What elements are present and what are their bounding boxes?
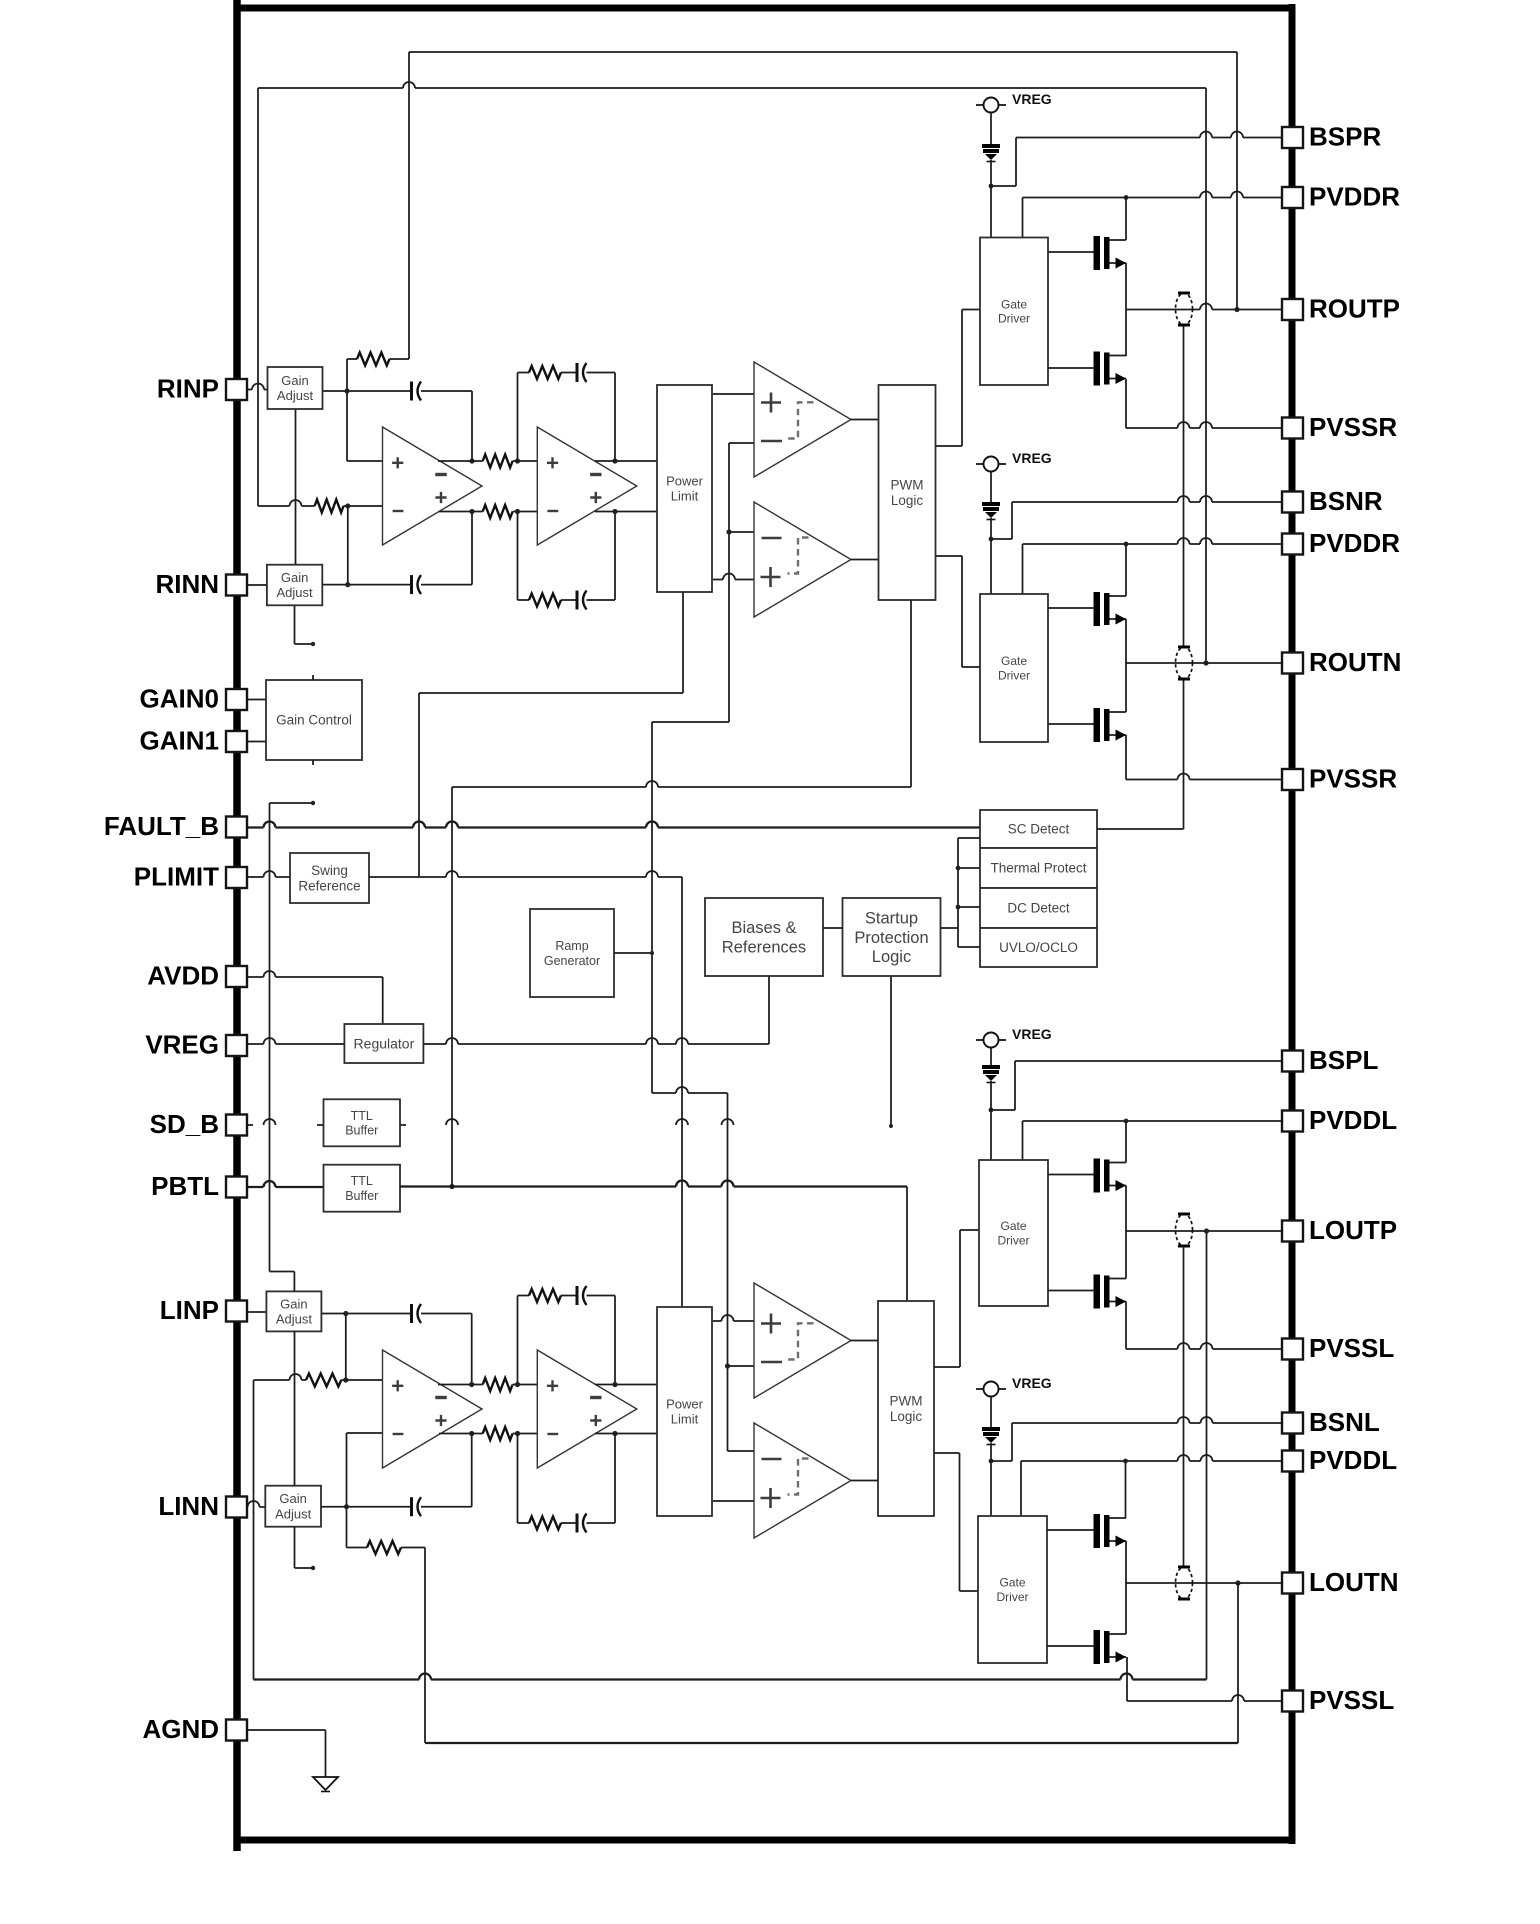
wire Q6 source to PVSSL bbox=[1126, 1302, 1283, 1350]
svg-text:TTL: TTL bbox=[351, 1174, 373, 1188]
svg-text:Gain Control: Gain Control bbox=[276, 713, 352, 728]
wire AVDD to regulator bbox=[247, 971, 383, 1024]
transistor Q5 high side L+ bbox=[1094, 1159, 1127, 1193]
svg-text:Gain: Gain bbox=[281, 373, 308, 388]
wire power limit R to comparators bbox=[713, 394, 754, 580]
pin FAULT_B bbox=[104, 811, 247, 841]
pin BSNL 1 bbox=[1282, 1407, 1380, 1437]
wire RINN pin to gain adjust bbox=[247, 584, 267, 586]
wire LOUTN feedback down bbox=[1237, 1583, 1239, 1743]
pin LINN bbox=[158, 1491, 247, 1521]
svg-text:FAULT_B: FAULT_B bbox=[104, 811, 219, 841]
diode D4 bootstrap L low bbox=[982, 1427, 1000, 1445]
wire LOUTN out node bbox=[1126, 1541, 1283, 1634]
wire PBTL input bbox=[247, 1181, 324, 1187]
wire PVDDR net bottom bbox=[1023, 538, 1284, 596]
wire PWM L to gate driver 3 bbox=[934, 1230, 979, 1367]
wire power limit R threshold from swing reference bbox=[419, 592, 683, 877]
capacitor R-ch input bottom bbox=[412, 509, 475, 594]
comparator CMP3 L bbox=[754, 1283, 851, 1398]
wire ROUTN feedback to RINN network bbox=[258, 82, 1209, 666]
resistor interstage L bottom bbox=[483, 1427, 538, 1440]
wire ROUTP out node bbox=[1126, 263, 1283, 356]
pin RINN bbox=[155, 569, 247, 599]
wire diode2 to gate driver 2 bbox=[990, 518, 992, 594]
pin ROUTN 1 bbox=[1282, 647, 1401, 677]
svg-text:Limit: Limit bbox=[671, 489, 699, 504]
svg-text:BSPR: BSPR bbox=[1309, 122, 1381, 152]
block Regulator bbox=[344, 1024, 423, 1063]
wire SD_B hops bbox=[247, 1119, 734, 1125]
svg-text:Driver: Driver bbox=[998, 668, 1030, 682]
transistor Q7 high side L- bbox=[1094, 1514, 1127, 1548]
block Gate Driver 4 bbox=[978, 1516, 1047, 1663]
svg-text:Gate: Gate bbox=[1000, 1219, 1026, 1233]
pin LOUTN 1 bbox=[1282, 1567, 1399, 1597]
svg-text:PVDDR: PVDDR bbox=[1309, 528, 1400, 558]
svg-text:PVSSL: PVSSL bbox=[1309, 1685, 1394, 1715]
pin ROUTP 1 bbox=[1282, 294, 1400, 324]
wire PWM L to gate driver 4 bbox=[934, 1453, 979, 1591]
wire gain adjust2 bottom stub bbox=[295, 605, 316, 646]
wire LOUTP out node bbox=[1126, 1186, 1283, 1279]
svg-text:Thermal Protect: Thermal Protect bbox=[990, 861, 1086, 876]
wire regulator output VREG net bbox=[424, 976, 770, 1044]
wire L feedback bus upper bbox=[254, 1674, 1207, 1680]
svg-text:Limit: Limit bbox=[671, 1412, 699, 1427]
wire BSNL net bbox=[989, 1417, 1283, 1463]
transistor Q6 low side L+ bbox=[1094, 1275, 1127, 1309]
pin PBTL bbox=[151, 1171, 247, 1201]
wire diode1 to gate driver 1 bbox=[990, 160, 992, 238]
pin PVDDR 1 bbox=[1282, 182, 1400, 212]
svg-text:LINN: LINN bbox=[158, 1491, 219, 1521]
svg-text:Logic: Logic bbox=[890, 1409, 923, 1424]
svg-text:Adjust: Adjust bbox=[277, 388, 314, 403]
wire startup logic to SD_B bbox=[889, 976, 893, 1128]
wire SC detect sense line bbox=[1097, 325, 1184, 829]
pin SD_B bbox=[150, 1109, 247, 1139]
capacitor amp2R feedback bottom bbox=[577, 509, 618, 610]
wire amp1L upper output bbox=[438, 1384, 483, 1386]
svg-text:AGND: AGND bbox=[142, 1714, 219, 1744]
svg-text:PBTL: PBTL bbox=[151, 1171, 219, 1201]
svg-text:PVSSL: PVSSL bbox=[1309, 1333, 1394, 1363]
svg-text:PWM: PWM bbox=[890, 1393, 923, 1408]
comparator symbols CMP1 R bbox=[761, 393, 814, 442]
svg-text:Driver: Driver bbox=[998, 312, 1030, 326]
op-amp U3 input amp L bbox=[383, 1350, 483, 1468]
svg-text:LINP: LINP bbox=[160, 1295, 219, 1325]
svg-text:ROUTN: ROUTN bbox=[1309, 647, 1401, 677]
block SC Detect bbox=[980, 810, 1097, 848]
pin PVSSL 1 bbox=[1282, 1333, 1394, 1363]
wire amp1R lower output bbox=[439, 511, 483, 513]
wire PWM R mode input from PBTL bbox=[449, 600, 911, 1189]
pin AVDD bbox=[147, 961, 247, 991]
resistor interstage R top bbox=[483, 455, 538, 468]
block Gain Adjust R1 bbox=[268, 367, 323, 409]
capacitor amp2L feedback bottom bbox=[577, 1431, 618, 1533]
pin GAIN0 bbox=[140, 684, 247, 714]
resistor interstage R bottom bbox=[483, 505, 538, 518]
wire gate driver3 gates bbox=[1048, 1175, 1094, 1291]
svg-text:SD_B: SD_B bbox=[150, 1109, 219, 1139]
svg-text:RINP: RINP bbox=[157, 374, 219, 404]
wire ramp generator output bbox=[614, 952, 652, 954]
current sense sense LOUTP bbox=[1176, 1214, 1193, 1246]
svg-text:VREG: VREG bbox=[1012, 1026, 1052, 1042]
transistor Q8 low side L- bbox=[1094, 1630, 1127, 1664]
block Power Limit R bbox=[657, 385, 712, 592]
wire PVDDL net bottom bbox=[1021, 1455, 1283, 1518]
svg-text:BSNR: BSNR bbox=[1309, 486, 1383, 516]
comparator symbols CMP2 R bbox=[761, 538, 809, 588]
resistor R-ch feedback bottom on inverting input bbox=[258, 500, 383, 513]
block Gain Control bbox=[266, 680, 362, 760]
svg-text:AVDD: AVDD bbox=[147, 961, 219, 991]
power symbol VREG bootstrap L low bbox=[976, 1375, 1052, 1397]
pin PVDDL 1 bbox=[1282, 1105, 1397, 1135]
pin PVDDL 2 bbox=[1282, 1445, 1397, 1475]
wire comparator outputs R bbox=[851, 420, 879, 560]
wire gate driver4 gates bbox=[1047, 1530, 1094, 1646]
transistor Q1 high side R+ bbox=[1094, 236, 1127, 270]
svg-text:Logic: Logic bbox=[891, 493, 924, 508]
svg-text:Gain: Gain bbox=[281, 570, 308, 585]
resistor amp2R feedback top bbox=[518, 366, 578, 461]
wire gain adjust control R bbox=[295, 409, 297, 565]
svg-text:SC Detect: SC Detect bbox=[1008, 822, 1070, 837]
svg-text:TTL: TTL bbox=[351, 1109, 373, 1123]
wire ROUTN out node bbox=[1126, 619, 1283, 712]
wire amp1L inverting input bbox=[347, 1432, 383, 1434]
svg-text:LOUTP: LOUTP bbox=[1309, 1215, 1397, 1245]
power symbol VREG bootstrap L high bbox=[976, 1026, 1052, 1048]
wire PBTL net bbox=[400, 1181, 907, 1302]
block Gate Driver 1 bbox=[980, 238, 1048, 386]
wire PVDDR net top bbox=[1023, 192, 1284, 241]
block Power Limit L bbox=[657, 1307, 712, 1516]
svg-text:Swing: Swing bbox=[311, 863, 348, 878]
svg-text:UVLO/OCLO: UVLO/OCLO bbox=[999, 940, 1078, 955]
wire amp2L outputs to power limit bbox=[595, 1385, 657, 1434]
wire Q4 source to PVSSR 2 bbox=[1126, 735, 1283, 780]
pin PLIMIT bbox=[134, 862, 247, 892]
svg-text:BSPL: BSPL bbox=[1309, 1045, 1378, 1075]
wire amp1L lower output bbox=[439, 1433, 483, 1435]
svg-text:PLIMIT: PLIMIT bbox=[134, 862, 219, 892]
wire gain adjust1 output bbox=[323, 390, 412, 392]
pin BSNR 1 bbox=[1282, 486, 1383, 516]
svg-text:Buffer: Buffer bbox=[345, 1124, 378, 1138]
svg-text:PVSSR: PVSSR bbox=[1309, 412, 1397, 442]
wire startup logic to protection bus bbox=[941, 927, 959, 929]
op-amp U4 second amp L bbox=[537, 1350, 637, 1468]
block Gain Adjust R2 bbox=[267, 565, 322, 606]
wire ROUTP feedback to RINP network bbox=[409, 52, 1240, 359]
wire BSNR net bbox=[989, 496, 1283, 541]
transistor Q4 low side R- bbox=[1094, 708, 1127, 742]
svg-text:LOUTN: LOUTN bbox=[1309, 1567, 1399, 1597]
svg-text:Generator: Generator bbox=[544, 954, 600, 968]
block Gain Adjust L1 bbox=[266, 1291, 321, 1331]
svg-text:Buffer: Buffer bbox=[345, 1189, 378, 1203]
wire VREG to diode 2 bbox=[990, 472, 992, 503]
wire gain adjust L1 output bbox=[322, 1311, 412, 1380]
pin PVDDR 2 bbox=[1282, 528, 1400, 558]
block PWM Logic R bbox=[879, 385, 936, 600]
svg-text:Power: Power bbox=[666, 1396, 704, 1411]
wire ramp taps L bbox=[728, 1366, 755, 1451]
wire VREG to diode 1 bbox=[990, 113, 992, 145]
pin PVSSR 1 bbox=[1282, 412, 1397, 442]
resistor L-ch feedback top on noninverting input bbox=[254, 1374, 383, 1387]
wire FAULT_B to SC detect bbox=[247, 822, 981, 828]
svg-text:VREG: VREG bbox=[1012, 1375, 1052, 1391]
resistor L-ch feedback bottom bbox=[347, 1507, 426, 1743]
svg-text:Logic: Logic bbox=[872, 948, 911, 966]
svg-text:Gate: Gate bbox=[999, 1576, 1025, 1590]
resistor amp2R feedback bottom bbox=[518, 512, 578, 607]
wire PWM R to gate driver 2 bbox=[936, 556, 981, 667]
wire diode3 to gate driver 3 bbox=[990, 1081, 992, 1160]
pin RINP bbox=[157, 374, 247, 404]
wire amp1 noninverting input bbox=[347, 460, 383, 462]
wire Q2 source to PVSSR bbox=[1126, 379, 1283, 428]
wire ramp to L channel bbox=[652, 1087, 730, 1451]
wire L feedback bus lower bbox=[425, 1742, 1238, 1744]
svg-text:RINN: RINN bbox=[155, 569, 219, 599]
comparator symbols CMP3 L bbox=[761, 1314, 814, 1363]
pin PVSSL 2 bbox=[1282, 1685, 1394, 1715]
wire LINP pin to gain adjust bbox=[245, 1311, 266, 1313]
svg-text:PVDDL: PVDDL bbox=[1309, 1105, 1397, 1135]
ground symbol bbox=[313, 1777, 338, 1792]
pin BSPL 1 bbox=[1282, 1045, 1378, 1075]
wire RINP pin to gain adjust bbox=[247, 384, 268, 390]
wire gain adjust L2 bottom stub bbox=[295, 1527, 316, 1570]
comparator CMP2 R bbox=[754, 502, 851, 617]
svg-text:ROUTP: ROUTP bbox=[1309, 294, 1400, 324]
block PWM Logic L bbox=[878, 1301, 934, 1516]
wire gain control stubs bbox=[312, 675, 314, 765]
resistor R-ch feedback top bbox=[347, 353, 409, 366]
pin PVSSR 2 bbox=[1282, 764, 1397, 794]
comparator CMP4 L bbox=[754, 1423, 851, 1538]
node A R-ch input node bbox=[344, 359, 349, 461]
diode D2 bootstrap R low bbox=[982, 502, 1000, 520]
svg-text:GAIN0: GAIN0 bbox=[140, 684, 219, 714]
wire GAIN0 stub bbox=[247, 699, 266, 701]
wire LINN pin to gain adjust bbox=[245, 1501, 265, 1507]
svg-text:Gate: Gate bbox=[1001, 654, 1027, 668]
pin VREG bbox=[145, 1030, 247, 1060]
current sense sense ROUTN bbox=[1176, 647, 1193, 679]
wire BSPR net bbox=[989, 132, 1283, 189]
svg-text:Driver: Driver bbox=[998, 1233, 1030, 1247]
wire gate driver1 gates bbox=[1048, 252, 1094, 368]
wire PWM R to gate driver 1 bbox=[936, 310, 981, 447]
wire gain adjust control L bbox=[294, 1331, 296, 1486]
block UVLO OCLO bbox=[980, 928, 1097, 967]
comparator CMP1 R bbox=[754, 362, 851, 477]
wire amp2R outputs to power limit bbox=[595, 461, 657, 512]
pin LOUTP 1 bbox=[1282, 1215, 1397, 1245]
svg-text:PWM: PWM bbox=[891, 477, 924, 492]
svg-text:PVDDR: PVDDR bbox=[1309, 182, 1400, 212]
outer chip border bbox=[234, 0, 1296, 1851]
block DC Detect bbox=[980, 888, 1097, 928]
svg-text:Startup: Startup bbox=[865, 909, 918, 927]
svg-text:Protection: Protection bbox=[854, 929, 928, 947]
block Thermal Protect bbox=[980, 848, 1097, 888]
wire VREG pin to regulator bbox=[247, 1038, 345, 1044]
svg-text:Regulator: Regulator bbox=[354, 1035, 415, 1051]
svg-text:Gain: Gain bbox=[280, 1296, 307, 1311]
svg-text:Adjust: Adjust bbox=[276, 1312, 313, 1327]
capacitor L-ch input bottom bbox=[412, 1431, 475, 1516]
block TTL Buffer 1 bbox=[324, 1099, 401, 1146]
current sense sense ROUTP bbox=[1176, 293, 1193, 325]
wire protection bus bbox=[956, 838, 980, 947]
diode D1 bootstrap R high bbox=[982, 144, 1000, 162]
transistor Q3 high side R- bbox=[1094, 592, 1127, 626]
svg-text:BSNL: BSNL bbox=[1309, 1407, 1380, 1437]
power symbol VREG bootstrap R low bbox=[976, 450, 1052, 472]
svg-text:References: References bbox=[722, 939, 806, 957]
wire gain adjust L2 output bbox=[321, 1433, 412, 1509]
pin GAIN1 bbox=[140, 726, 247, 756]
wire biases to startup logic bbox=[823, 927, 843, 929]
transistor Q2 low side R+ bbox=[1094, 352, 1127, 386]
wire amp1R upper output bbox=[438, 460, 483, 462]
svg-text:Power: Power bbox=[666, 473, 704, 488]
capacitor amp2L feedback top bbox=[577, 1286, 618, 1387]
block Biases and References bbox=[705, 898, 823, 976]
block Startup Protection Logic bbox=[843, 898, 941, 976]
svg-text:DC Detect: DC Detect bbox=[1007, 901, 1070, 916]
svg-text:Adjust: Adjust bbox=[277, 585, 314, 600]
wire AGND bbox=[247, 1730, 326, 1777]
diode D3 bootstrap L high bbox=[982, 1065, 1000, 1083]
wire VREG to diode 3 bbox=[990, 1048, 992, 1066]
pin AGND bbox=[142, 1714, 247, 1744]
svg-text:PVSSR: PVSSR bbox=[1309, 764, 1397, 794]
comparator symbols CMP4 L bbox=[761, 1459, 809, 1509]
current sense sense LOUTN bbox=[1176, 1567, 1193, 1599]
block Gain Adjust L2 bbox=[265, 1486, 321, 1527]
capacitor amp2R feedback top bbox=[577, 363, 618, 464]
pin BSPR 1 bbox=[1282, 122, 1381, 152]
wire PLIMIT to swing reference bbox=[247, 871, 291, 877]
wire LOUTP feedback vertical left bbox=[253, 1380, 255, 1680]
svg-text:PVDDL: PVDDL bbox=[1309, 1445, 1397, 1475]
svg-text:VREG: VREG bbox=[1012, 91, 1052, 107]
wire GAIN1 stub bbox=[247, 741, 266, 743]
block Swing Reference bbox=[290, 853, 369, 903]
power symbol VREG bootstrap R high bbox=[976, 91, 1052, 113]
svg-text:Ramp: Ramp bbox=[555, 939, 588, 953]
block Gate Driver 3 bbox=[979, 1160, 1048, 1306]
svg-text:Adjust: Adjust bbox=[275, 1506, 312, 1521]
svg-text:Driver: Driver bbox=[997, 1590, 1029, 1604]
resistor amp2L feedback top bbox=[518, 1289, 578, 1385]
block Gate Driver 2 bbox=[980, 594, 1048, 742]
svg-text:Reference: Reference bbox=[298, 879, 360, 894]
wire ramp distribution R bbox=[650, 443, 754, 1093]
wire sense line LOUTP to LOUTN bbox=[1183, 1246, 1185, 1567]
svg-text:Gain: Gain bbox=[279, 1491, 306, 1506]
wire swing reference output bbox=[369, 871, 682, 1307]
pin LINP bbox=[160, 1295, 247, 1325]
wire Q8 source to PVSSL 2 bbox=[1127, 1657, 1283, 1701]
wire LOUTP feedback down bbox=[1206, 1231, 1208, 1680]
wire comparator outputs L bbox=[851, 1341, 878, 1481]
wire VREG to diode 4 bbox=[990, 1397, 992, 1428]
capacitor R-ch input top bbox=[412, 382, 475, 464]
block Ramp Generator bbox=[530, 909, 614, 997]
resistor interstage L top bbox=[483, 1378, 538, 1391]
svg-text:Gate: Gate bbox=[1001, 297, 1027, 311]
svg-text:VREG: VREG bbox=[145, 1030, 219, 1060]
wire PVDDL net top bbox=[1023, 1119, 1284, 1163]
svg-text:VREG: VREG bbox=[1012, 450, 1052, 466]
svg-text:GAIN1: GAIN1 bbox=[140, 726, 219, 756]
wire control net vertical with top stub bbox=[270, 801, 316, 1292]
op-amp U2 second amp R bbox=[537, 427, 637, 545]
wire BSPL net bbox=[989, 1061, 1283, 1112]
wire gain adjust2 output bbox=[322, 506, 411, 587]
wire power limit L to comparators bbox=[713, 1315, 754, 1501]
capacitor L-ch input top bbox=[412, 1304, 475, 1387]
wire gate driver2 gates bbox=[1048, 608, 1094, 724]
resistor amp2L feedback bottom bbox=[518, 1434, 578, 1530]
svg-text:Biases &: Biases & bbox=[731, 919, 796, 937]
wire diode4 to gate driver 4 bbox=[990, 1443, 992, 1516]
block TTL Buffer 2 bbox=[324, 1165, 401, 1212]
op-amp U1 input amp R bbox=[383, 427, 483, 545]
